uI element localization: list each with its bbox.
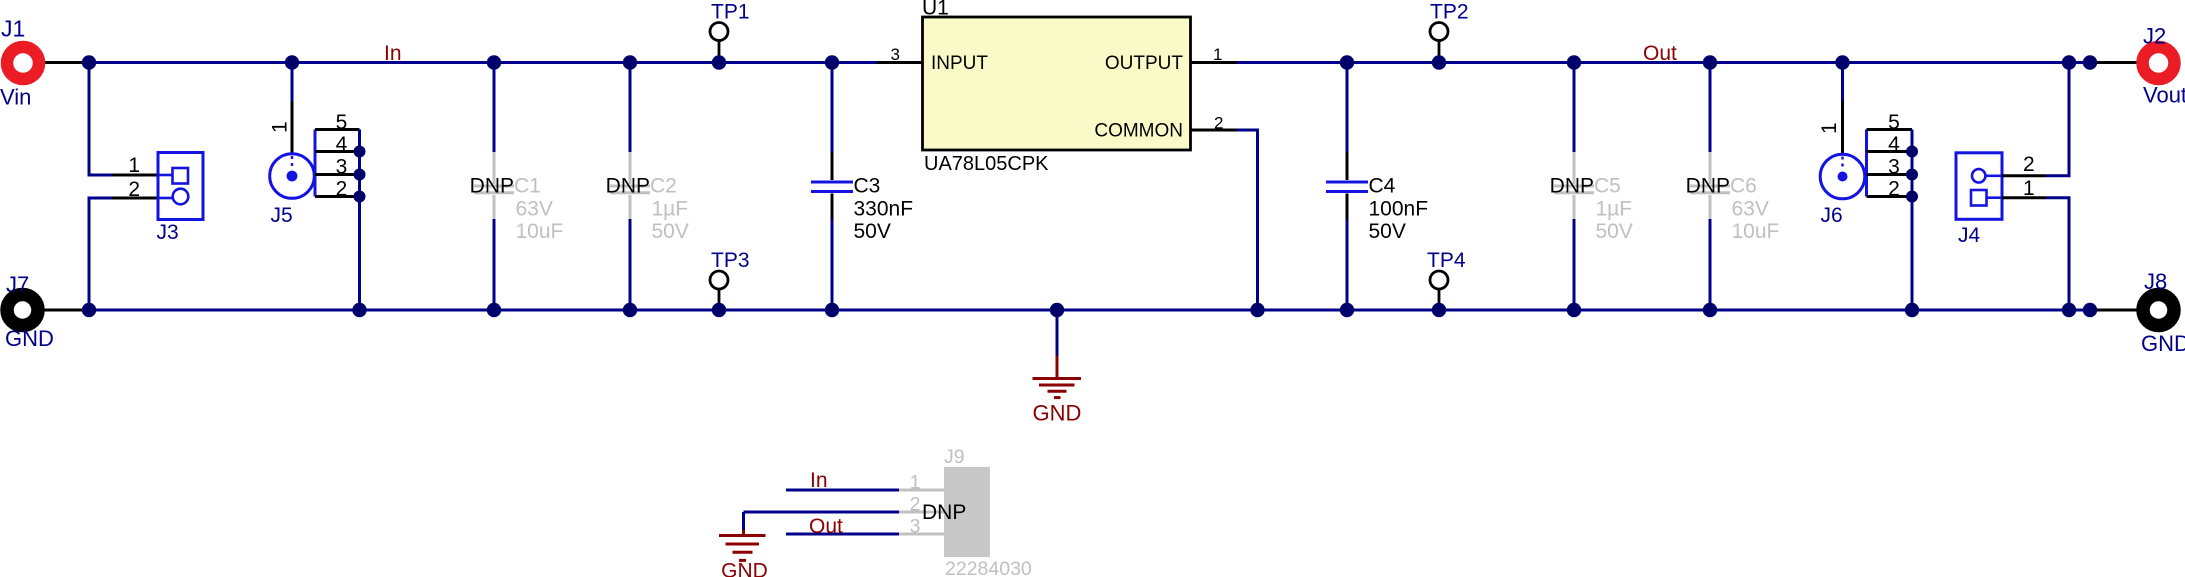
svg-text:TP2: TP2 (1430, 1, 1469, 24)
svg-text:TP4: TP4 (1427, 249, 1466, 272)
svg-text:1: 1 (128, 154, 140, 177)
svg-text:J1: J1 (1, 16, 25, 42)
svg-text:50V: 50V (1596, 220, 1633, 243)
svg-text:10uF: 10uF (516, 220, 564, 243)
svg-text:50V: 50V (652, 220, 689, 243)
svg-text:GND: GND (5, 326, 54, 351)
svg-text:J9: J9 (944, 446, 965, 468)
svg-text:Out: Out (809, 515, 843, 538)
svg-text:C6: C6 (1730, 175, 1757, 198)
svg-text:C3: C3 (854, 175, 881, 198)
svg-text:3: 3 (891, 45, 900, 64)
svg-text:1µF: 1µF (652, 197, 689, 220)
svg-text:DNP: DNP (470, 175, 514, 198)
svg-text:Vin: Vin (0, 85, 31, 110)
svg-text:DNP: DNP (1686, 175, 1730, 198)
svg-text:Vout: Vout (2143, 83, 2185, 108)
svg-text:DNP: DNP (922, 501, 966, 524)
svg-text:5: 5 (1888, 111, 1900, 134)
svg-text:C1: C1 (514, 175, 541, 198)
svg-text:10uF: 10uF (1732, 220, 1780, 243)
svg-text:COMMON: COMMON (1094, 121, 1183, 142)
svg-text:63V: 63V (1732, 197, 1769, 220)
svg-text:Out: Out (1643, 42, 1677, 65)
svg-text:3: 3 (910, 516, 921, 538)
svg-text:2: 2 (910, 494, 921, 516)
svg-text:J6: J6 (1821, 204, 1843, 227)
svg-text:J2: J2 (2143, 24, 2166, 49)
svg-text:1: 1 (1213, 45, 1222, 64)
svg-text:J4: J4 (1958, 224, 1981, 247)
svg-text:GND: GND (2141, 331, 2185, 356)
svg-text:63V: 63V (516, 197, 553, 220)
svg-text:2: 2 (2023, 153, 2035, 176)
svg-text:4: 4 (1888, 133, 1900, 156)
svg-text:1: 1 (910, 472, 921, 494)
svg-text:1: 1 (1818, 122, 1841, 134)
svg-text:TP3: TP3 (711, 249, 750, 272)
svg-text:2: 2 (336, 178, 348, 201)
svg-text:1µF: 1µF (1596, 197, 1633, 220)
svg-text:2: 2 (1888, 178, 1900, 201)
svg-text:2: 2 (128, 178, 140, 201)
svg-text:5: 5 (336, 111, 348, 134)
svg-text:50V: 50V (854, 220, 891, 243)
svg-text:J8: J8 (2144, 269, 2167, 294)
svg-text:U1: U1 (922, 0, 949, 20)
svg-text:C5: C5 (1594, 175, 1621, 198)
svg-text:50V: 50V (1369, 220, 1406, 243)
svg-text:GND: GND (721, 560, 768, 577)
svg-text:In: In (810, 469, 828, 492)
svg-text:DNP: DNP (1550, 175, 1594, 198)
svg-text:C2: C2 (650, 175, 677, 198)
svg-text:330nF: 330nF (854, 197, 914, 220)
svg-text:3: 3 (336, 156, 348, 179)
svg-text:4: 4 (336, 133, 348, 156)
svg-text:100nF: 100nF (1369, 197, 1429, 220)
svg-text:J7: J7 (6, 272, 29, 297)
svg-text:3: 3 (1888, 156, 1900, 179)
svg-text:J3: J3 (157, 221, 179, 244)
svg-text:In: In (384, 42, 402, 65)
svg-text:1: 1 (269, 121, 292, 133)
svg-text:TP1: TP1 (711, 1, 750, 24)
svg-text:UA78L05CPK: UA78L05CPK (924, 153, 1049, 175)
svg-text:OUTPUT: OUTPUT (1105, 53, 1184, 74)
svg-text:J5: J5 (271, 204, 293, 227)
svg-text:C4: C4 (1369, 175, 1396, 198)
svg-text:GND: GND (1033, 401, 1082, 426)
svg-text:INPUT: INPUT (931, 53, 988, 74)
svg-text:DNP: DNP (606, 175, 650, 198)
svg-text:22284030: 22284030 (945, 558, 1032, 577)
